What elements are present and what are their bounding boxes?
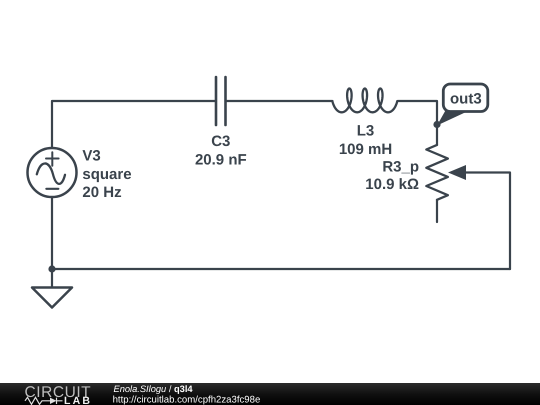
wire top-left from V3 top to C3 [52, 101, 216, 148]
junction node dot at out3 [433, 121, 440, 128]
svg-text:20 Hz: 20 Hz [82, 184, 121, 201]
svg-text:109 mH: 109 mH [339, 141, 392, 158]
svg-text:LAB: LAB [64, 395, 92, 405]
svg-text:V3: V3 [82, 147, 100, 164]
wire bottom from ground junction to right edge [52, 268, 510, 270]
inductor L3 coil [332, 89, 397, 113]
potentiometer R3_p top lead from node [436, 125, 438, 145]
CircuitLab logo resistor-diode squiggle [25, 397, 63, 404]
svg-text:R3_p: R3_p [382, 159, 419, 176]
capacitor C3 left plate [215, 77, 218, 125]
svg-text:L3: L3 [357, 123, 375, 140]
wire V3 bottom lead to ground junction [51, 197, 53, 269]
wire from C3 to L3 [226, 100, 333, 102]
potentiometer wiper arrow head [448, 165, 466, 180]
capacitor C3 right plate [224, 77, 227, 125]
svg-text:out3: out3 [450, 91, 482, 108]
wire from L3 to out3 node corner [398, 101, 437, 125]
svg-text:http://circuitlab.com/cpfh2za3: http://circuitlab.com/cpfh2za3fc98e [113, 394, 261, 405]
wire from potentiometer arrow to right edge and down [466, 173, 511, 270]
V3 minus sign [46, 188, 58, 190]
svg-text:square: square [82, 166, 131, 183]
svg-text:10.9 kΩ: 10.9 kΩ [365, 176, 419, 193]
svg-text:Enola.SIlogu / q3l4: Enola.SIlogu / q3l4 [114, 384, 194, 394]
out3 flag tail [437, 110, 465, 126]
V3 sine wave glyph [37, 163, 65, 183]
potentiometer R3_p zigzag body [426, 145, 448, 200]
junction node dot at ground [48, 265, 55, 272]
ground lead [51, 269, 53, 288]
svg-text:C3: C3 [211, 133, 230, 150]
out3 flag box [443, 84, 488, 112]
ground symbol triangle [32, 288, 72, 308]
potentiometer R3_p bottom open lead [436, 200, 438, 222]
voltage source V3 circle [28, 148, 77, 197]
V3 plus sign [46, 152, 59, 166]
svg-text:20.9 nF: 20.9 nF [195, 152, 247, 169]
